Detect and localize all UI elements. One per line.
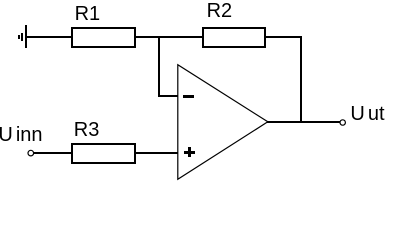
wire R3 to non-inverting input	[136, 152, 178, 154]
label U ut	[350, 104, 384, 124]
label U inn	[0, 125, 43, 145]
label R3	[74, 120, 100, 140]
resistor R1	[71, 27, 136, 48]
wire R2 to feedback corner	[266, 36, 302, 38]
label R1	[75, 4, 101, 24]
plus sign (non-inverting input)	[184, 151, 195, 154]
ground	[18, 35, 20, 39]
wire terminal to R3	[33, 152, 71, 154]
wire feedback vertical	[300, 36, 302, 123]
wire to inverting input	[158, 95, 178, 97]
minus sign (inverting input)	[183, 95, 194, 98]
resistor R3	[71, 143, 136, 164]
node junction vertical to inverting input	[158, 36, 160, 97]
wire R1 to R2	[136, 36, 202, 38]
input terminal circle	[27, 149, 35, 157]
wire ground to R1	[27, 36, 71, 38]
output wire	[267, 121, 340, 123]
resistor R2	[202, 27, 266, 48]
op-amp triangle	[0, 0, 410, 181]
label R2	[207, 1, 233, 21]
output terminal circle	[339, 119, 347, 127]
